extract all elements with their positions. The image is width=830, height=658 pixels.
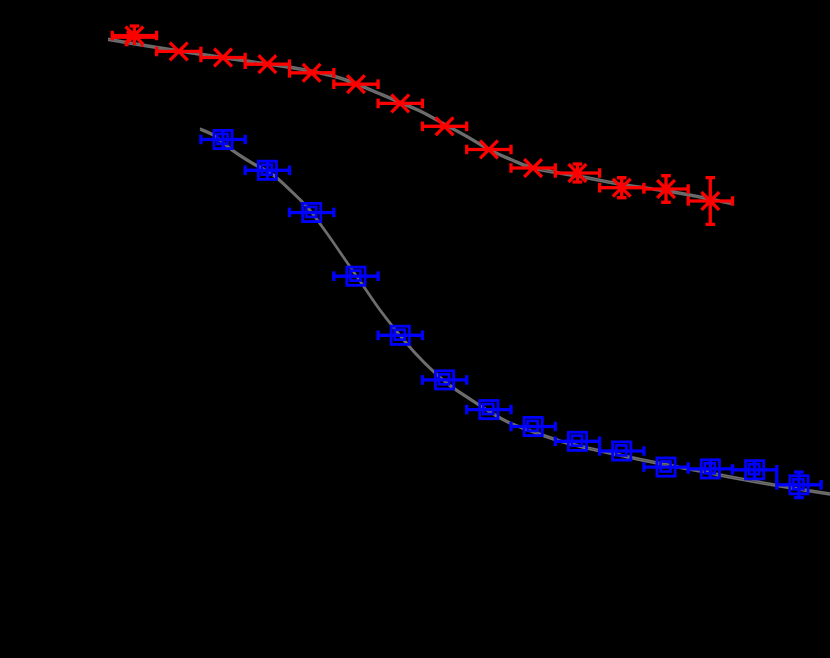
blue data point 10: [600, 442, 644, 460]
red data point 12: [600, 178, 644, 198]
overlapping error-bar caps bridge (blue): [775, 472, 778, 482]
red-series fit curve (upper strand): [108, 39, 732, 203]
blue data point 2: [245, 160, 289, 180]
red data point 1: [112, 26, 156, 46]
red data point 9: [467, 141, 511, 159]
blue-series fit curve (upper strand): [200, 128, 830, 493]
blue data point 12: [688, 459, 732, 479]
red data point 7: [378, 95, 422, 113]
red data point 3: [201, 49, 245, 67]
blue data point 8: [511, 417, 555, 435]
red data point 8: [422, 117, 466, 135]
red data point 10: [511, 159, 555, 177]
blue data point 1: [201, 130, 245, 150]
blue data point 4: [334, 267, 378, 285]
blue data point 3: [290, 203, 334, 221]
blue data point 11: [644, 458, 688, 476]
red data point 6: [334, 75, 378, 93]
red data point 5: [290, 64, 334, 82]
red data point 14: [688, 178, 732, 225]
blue-series fit curve (lower strand): [200, 130, 830, 495]
red data point 11: [555, 164, 599, 182]
blue data point 5: [378, 326, 422, 344]
red data point 2: [157, 43, 201, 61]
red-series fit curve (lower strand): [108, 40, 732, 204]
red data point 13: [644, 176, 688, 203]
blue data point 7: [467, 401, 511, 419]
blue data point 13: [733, 460, 777, 480]
blue data point 9: [555, 432, 599, 450]
blue data point 14: [777, 472, 821, 498]
red data point 4: [245, 55, 289, 73]
blue data point 6: [422, 371, 466, 389]
